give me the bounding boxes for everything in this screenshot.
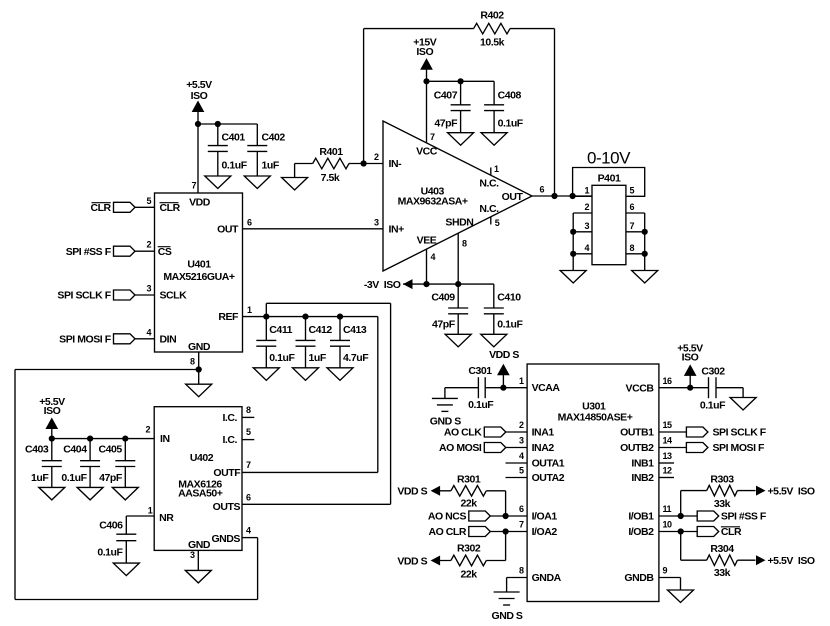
svg-text:C405: C405 <box>98 443 122 455</box>
svg-text:R302: R302 <box>457 543 481 555</box>
svg-text:33k: 33k <box>714 567 731 579</box>
svg-text:C403: C403 <box>25 443 49 455</box>
svg-text:OUT: OUT <box>502 191 524 203</box>
svg-text:SPI #SS F: SPI #SS F <box>721 511 767 523</box>
svg-text:OUTA1: OUTA1 <box>532 457 565 469</box>
svg-text:C408: C408 <box>498 89 522 101</box>
svg-text:22k: 22k <box>461 498 478 510</box>
svg-text:C410: C410 <box>497 291 521 303</box>
svg-text:ISO: ISO <box>191 90 208 102</box>
svg-text:SPI #SS F: SPI #SS F <box>66 246 112 258</box>
svg-text:GNDA: GNDA <box>532 572 562 584</box>
svg-text:8: 8 <box>519 566 524 576</box>
svg-text:C406: C406 <box>99 519 123 531</box>
svg-text:AO MOSI: AO MOSI <box>439 442 482 454</box>
svg-text:5: 5 <box>519 466 524 476</box>
svg-text:7.5k: 7.5k <box>321 172 340 184</box>
svg-text:10.5k: 10.5k <box>480 36 505 48</box>
svg-text:0-10V: 0-10V <box>587 149 631 168</box>
svg-text:0.1uF: 0.1uF <box>269 352 295 364</box>
svg-text:0.1uF: 0.1uF <box>97 547 123 559</box>
svg-text:1: 1 <box>584 186 589 196</box>
svg-text:OUT: OUT <box>217 223 239 235</box>
svg-text:7: 7 <box>430 132 435 142</box>
svg-text:4: 4 <box>431 252 436 262</box>
svg-text:5: 5 <box>246 427 251 437</box>
svg-text:1: 1 <box>519 376 524 386</box>
svg-text:47pF: 47pF <box>434 117 458 129</box>
svg-text:1uF: 1uF <box>309 352 327 364</box>
svg-text:14: 14 <box>663 436 673 446</box>
svg-text:R401: R401 <box>319 146 343 158</box>
svg-text:CS: CS <box>158 246 172 258</box>
svg-text:C404: C404 <box>63 443 87 455</box>
svg-text:C301: C301 <box>468 365 492 377</box>
svg-text:1: 1 <box>494 164 499 174</box>
svg-text:CLR: CLR <box>160 202 181 214</box>
svg-text:I/OA2: I/OA2 <box>532 526 558 538</box>
svg-text:C413: C413 <box>343 324 367 336</box>
svg-text:0.1uF: 0.1uF <box>61 472 87 484</box>
svg-text:GNDB: GNDB <box>624 572 654 584</box>
svg-text:CLR: CLR <box>90 202 111 214</box>
svg-text:4: 4 <box>519 451 524 461</box>
svg-text:13: 13 <box>663 451 673 461</box>
svg-text:11: 11 <box>663 504 672 514</box>
svg-text:SPI MOSI F: SPI MOSI F <box>59 334 112 346</box>
svg-text:3: 3 <box>374 217 379 227</box>
svg-text:I/OB1: I/OB1 <box>628 511 654 523</box>
svg-text:7: 7 <box>191 181 196 191</box>
svg-text:5: 5 <box>495 218 500 228</box>
svg-text:22k: 22k <box>461 569 478 581</box>
svg-text:R402: R402 <box>480 10 504 22</box>
svg-text:I.C.: I.C. <box>222 412 237 424</box>
svg-text:47pF: 47pF <box>99 472 123 484</box>
svg-text:1: 1 <box>148 506 153 516</box>
svg-text:8: 8 <box>246 405 251 415</box>
svg-text:SPI SCLK F: SPI SCLK F <box>57 290 111 302</box>
svg-text:NR: NR <box>159 512 174 524</box>
svg-text:7: 7 <box>630 221 635 231</box>
svg-text:INA2: INA2 <box>532 442 555 454</box>
svg-text:8: 8 <box>462 239 467 249</box>
svg-text:1: 1 <box>247 305 252 315</box>
svg-text:SHDN: SHDN <box>445 217 473 229</box>
svg-text:N.C.: N.C. <box>479 177 499 189</box>
svg-text:0.1uF: 0.1uF <box>222 160 248 172</box>
svg-text:3: 3 <box>190 550 195 560</box>
svg-text:VEE: VEE <box>417 235 437 247</box>
svg-text:OUTA2: OUTA2 <box>532 472 565 484</box>
svg-text:VCCB: VCCB <box>626 382 655 394</box>
svg-text:INA1: INA1 <box>532 426 555 438</box>
svg-text:C401: C401 <box>222 132 246 144</box>
svg-text:ISO: ISO <box>682 351 699 363</box>
svg-text:+5.5V ISO: +5.5V ISO <box>768 485 815 497</box>
svg-text:R304: R304 <box>710 543 734 555</box>
svg-text:1uF: 1uF <box>31 472 49 484</box>
svg-text:6: 6 <box>247 217 252 227</box>
svg-text:AASA50+: AASA50+ <box>178 488 223 500</box>
svg-text:R301: R301 <box>457 473 481 485</box>
svg-text:6: 6 <box>540 185 545 195</box>
svg-text:9: 9 <box>663 566 668 576</box>
svg-text:15: 15 <box>663 420 673 430</box>
svg-text:5: 5 <box>146 196 151 206</box>
svg-text:2: 2 <box>146 240 151 250</box>
svg-text:C409: C409 <box>431 291 455 303</box>
svg-text:C407: C407 <box>434 89 458 101</box>
svg-text:AO CLR: AO CLR <box>428 526 466 538</box>
svg-text:C411: C411 <box>269 324 292 336</box>
svg-text:I.C.: I.C. <box>222 434 237 446</box>
svg-text:0.1uF: 0.1uF <box>498 117 524 129</box>
svg-text:12: 12 <box>663 466 673 476</box>
svg-text:VDD S: VDD S <box>489 349 519 361</box>
svg-text:INB1: INB1 <box>631 458 654 470</box>
svg-text:SCLK: SCLK <box>160 290 188 302</box>
svg-text:ISO: ISO <box>44 405 61 417</box>
svg-text:GND: GND <box>188 341 211 353</box>
svg-text:33k: 33k <box>714 498 731 510</box>
svg-text:OUTF: OUTF <box>213 467 241 479</box>
svg-text:GNDS: GNDS <box>211 533 240 545</box>
svg-text:2: 2 <box>145 425 150 435</box>
svg-text:R303: R303 <box>710 474 734 486</box>
svg-text:DIN: DIN <box>160 333 177 345</box>
svg-text:4: 4 <box>146 327 151 337</box>
svg-text:N.C.: N.C. <box>479 203 499 215</box>
svg-text:GND S: GND S <box>491 610 522 622</box>
svg-text:CLR: CLR <box>721 526 742 538</box>
svg-text:VCAA: VCAA <box>532 382 561 394</box>
svg-text:0.1uF: 0.1uF <box>497 318 523 330</box>
svg-text:3: 3 <box>584 221 589 231</box>
svg-text:C402: C402 <box>262 132 286 144</box>
svg-text:2: 2 <box>584 202 589 212</box>
svg-text:IN-: IN- <box>389 158 403 170</box>
svg-text:4: 4 <box>584 243 589 253</box>
svg-text:2: 2 <box>374 152 379 162</box>
svg-text:6: 6 <box>246 492 251 502</box>
svg-text:0.1uF: 0.1uF <box>700 400 726 412</box>
svg-text:MAX9632ASA+: MAX9632ASA+ <box>398 195 468 207</box>
svg-text:1uF: 1uF <box>262 160 280 172</box>
svg-text:P401: P401 <box>598 172 621 184</box>
svg-text:U401: U401 <box>187 259 211 271</box>
svg-text:VDD S: VDD S <box>397 486 427 498</box>
svg-text:AO CLK: AO CLK <box>444 427 482 439</box>
svg-text:VCC: VCC <box>416 146 438 158</box>
svg-text:8: 8 <box>190 357 195 367</box>
svg-text:I/OB2: I/OB2 <box>628 526 654 538</box>
svg-text:6: 6 <box>519 504 524 514</box>
svg-text:U402: U402 <box>190 452 214 464</box>
svg-text:AO NCS: AO NCS <box>428 511 467 523</box>
svg-text:3: 3 <box>519 436 524 446</box>
svg-text:6: 6 <box>630 202 635 212</box>
svg-text:OUTS: OUTS <box>213 501 241 513</box>
svg-text:0.1uF: 0.1uF <box>468 399 494 411</box>
svg-text:4.7uF: 4.7uF <box>343 352 369 364</box>
svg-text:SPI SCLK F: SPI SCLK F <box>713 427 767 439</box>
svg-text:16: 16 <box>663 376 673 386</box>
svg-text:47pF: 47pF <box>432 318 456 330</box>
svg-text:2: 2 <box>519 420 524 430</box>
svg-text:MAX5216GUA+: MAX5216GUA+ <box>163 271 235 283</box>
svg-text:C302: C302 <box>701 366 725 378</box>
svg-text:4: 4 <box>246 526 251 536</box>
svg-text:INB2: INB2 <box>631 472 654 484</box>
svg-text:I/OA1: I/OA1 <box>532 510 558 522</box>
svg-text:SPI MOSI F: SPI MOSI F <box>713 442 766 454</box>
svg-text:VDD S: VDD S <box>397 555 427 567</box>
svg-text:+5.5V ISO: +5.5V ISO <box>768 555 815 567</box>
svg-text:REF: REF <box>218 311 239 323</box>
svg-text:MAX14850ASE+: MAX14850ASE+ <box>558 411 633 423</box>
svg-text:10: 10 <box>663 520 673 530</box>
svg-text:VDD: VDD <box>189 197 211 209</box>
svg-text:IN+: IN+ <box>389 223 405 235</box>
svg-text:-3V ISO: -3V ISO <box>364 279 401 291</box>
svg-text:3: 3 <box>146 284 151 294</box>
svg-text:OUTB1: OUTB1 <box>620 427 654 439</box>
svg-text:7: 7 <box>519 520 524 530</box>
svg-text:7: 7 <box>246 460 251 470</box>
svg-text:8: 8 <box>630 243 635 253</box>
svg-text:5: 5 <box>630 186 635 196</box>
svg-text:IN: IN <box>160 433 170 445</box>
svg-text:ISO: ISO <box>416 46 433 58</box>
svg-text:OUTB2: OUTB2 <box>620 442 654 454</box>
svg-text:C412: C412 <box>309 324 333 336</box>
